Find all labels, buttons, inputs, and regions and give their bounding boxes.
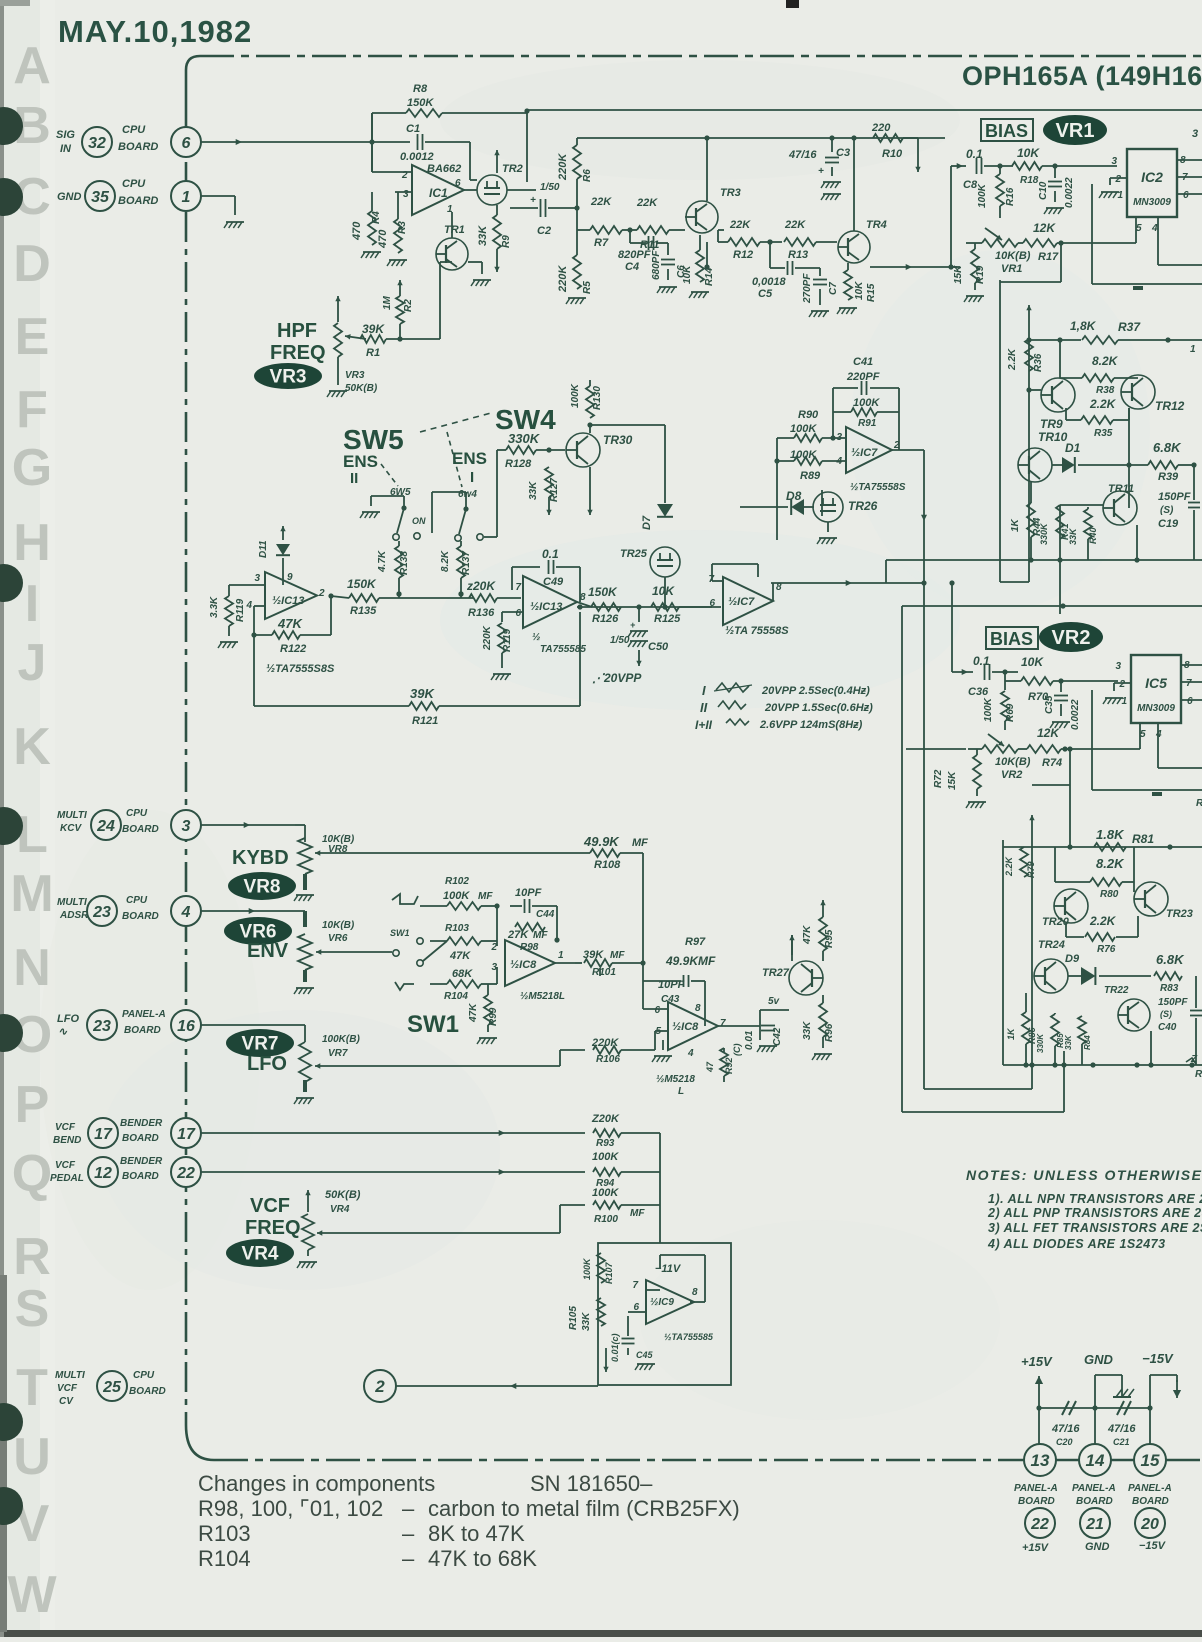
svg-text:BOARD: BOARD [122, 911, 159, 922]
svg-text:100K: 100K [443, 890, 470, 902]
svg-text:I: I [470, 469, 474, 486]
svg-text:3: 3 [1111, 156, 1117, 167]
svg-text:7: 7 [720, 1018, 726, 1029]
svg-text:23: 23 [92, 904, 111, 921]
svg-text:ENS: ENS [343, 452, 378, 471]
svg-text:G: G [12, 439, 52, 497]
svg-text:330K: 330K [508, 431, 541, 446]
svg-text:R69: R69 [1005, 703, 1016, 722]
svg-text:2: 2 [1114, 174, 1121, 185]
svg-text:MF: MF [632, 837, 648, 849]
svg-text:R108: R108 [594, 859, 621, 871]
svg-text:24: 24 [96, 818, 115, 835]
svg-text:15: 15 [1141, 1451, 1160, 1470]
svg-text:50K(B): 50K(B) [325, 1189, 361, 1201]
svg-text:+: + [530, 195, 536, 206]
svg-text:MF: MF [533, 930, 548, 941]
svg-text:BENDER: BENDER [120, 1118, 163, 1129]
svg-text:TR4: TR4 [866, 219, 887, 231]
svg-text:VCF: VCF [55, 1122, 76, 1133]
svg-text:SW1: SW1 [407, 1011, 459, 1038]
svg-text:0.0022: 0.0022 [1070, 699, 1081, 730]
svg-text:carbon to metal film (CRB25FX): carbon to metal film (CRB25FX) [428, 1496, 740, 1521]
svg-text:R36: R36 [1033, 353, 1044, 372]
svg-text:100K: 100K [592, 1151, 619, 1163]
svg-text:0.01: 0.01 [744, 1030, 755, 1050]
svg-text:R72: R72 [933, 769, 944, 788]
svg-text:R128: R128 [505, 458, 532, 470]
svg-text:(S): (S) [1160, 505, 1174, 516]
svg-text:10K(B): 10K(B) [995, 250, 1031, 262]
svg-text:½TA755585: ½TA755585 [664, 1332, 714, 1342]
svg-text:TR30: TR30 [603, 433, 633, 447]
svg-text:D11: D11 [258, 540, 269, 558]
svg-text:1/50: 1/50 [610, 635, 630, 646]
svg-text:KCV: KCV [60, 823, 82, 834]
svg-text:220K: 220K [557, 265, 569, 293]
svg-text:8K to 47K: 8K to 47K [428, 1521, 525, 1546]
svg-text:IC1: IC1 [429, 186, 448, 200]
svg-text:ON: ON [412, 516, 426, 526]
svg-text:TR27: TR27 [762, 967, 790, 979]
svg-text:8.2K: 8.2K [1092, 354, 1119, 368]
svg-text:BOARD: BOARD [124, 1025, 161, 1036]
svg-text:47K: 47K [802, 925, 813, 945]
svg-text:47/16: 47/16 [788, 149, 817, 161]
svg-text:4: 4 [835, 456, 842, 467]
svg-text:4) ALL DIODES ARE 1S2473: 4) ALL DIODES ARE 1S2473 [987, 1237, 1166, 1251]
svg-text:VCF: VCF [57, 1383, 78, 1394]
svg-text:CPU: CPU [122, 178, 146, 190]
svg-text:(S): (S) [1160, 1009, 1172, 1019]
svg-text:6: 6 [1183, 190, 1189, 201]
svg-text:23: 23 [92, 1018, 111, 1035]
svg-text:–: – [402, 1496, 415, 1521]
svg-text:OPH165A (149H165: OPH165A (149H165 [962, 61, 1202, 91]
svg-text:R2: R2 [403, 299, 414, 312]
svg-text:C5: C5 [758, 288, 773, 300]
svg-text:0.01(с): 0.01(с) [610, 1333, 620, 1362]
svg-text:33K: 33K [1068, 527, 1078, 545]
svg-text:68K: 68K [452, 968, 473, 980]
svg-text:47K: 47K [277, 616, 303, 631]
svg-text:CV: CV [59, 1396, 74, 1407]
svg-text:VR6: VR6 [328, 933, 348, 944]
svg-text:47/16: 47/16 [1107, 1423, 1136, 1435]
svg-text:VR1: VR1 [1056, 120, 1095, 142]
svg-text:MN3009: MN3009 [1137, 703, 1175, 714]
svg-text:220K: 220K [482, 625, 493, 651]
svg-text:BIAS: BIAS [985, 121, 1028, 141]
svg-text:BOARD: BOARD [1076, 1496, 1113, 1507]
svg-text:39K: 39K [362, 322, 385, 336]
svg-text:TR2: TR2 [502, 163, 523, 175]
svg-text:150K: 150K [347, 577, 377, 591]
svg-text:22K: 22K [784, 219, 806, 231]
svg-text:0.0022: 0.0022 [1064, 177, 1075, 208]
svg-text:2.2K: 2.2K [1004, 855, 1014, 877]
svg-text:3: 3 [403, 189, 409, 200]
svg-text:4: 4 [181, 904, 191, 921]
svg-text:1,8K: 1,8K [1070, 319, 1097, 333]
svg-text:1: 1 [558, 950, 564, 961]
svg-text:TR24: TR24 [1038, 939, 1065, 951]
svg-text:⋰20VPP: ⋰20VPP [592, 671, 642, 685]
svg-text:680PF: 680PF [651, 250, 662, 280]
svg-text:C19: C19 [1158, 518, 1179, 530]
svg-text:½IC7: ½IC7 [851, 447, 878, 459]
svg-text:I+II: I+II [695, 718, 713, 732]
svg-text:6.8K: 6.8K [1156, 952, 1185, 967]
svg-text:MULTI: MULTI [57, 810, 87, 821]
svg-text:PANEL-A: PANEL-A [1128, 1483, 1172, 1494]
svg-text:−15V: −15V [1139, 1540, 1167, 1552]
svg-text:R137: R137 [461, 551, 472, 575]
svg-text:T: T [16, 1359, 48, 1417]
svg-text:220K: 220K [557, 153, 569, 181]
svg-text:VR1: VR1 [1001, 263, 1022, 275]
svg-text:R1: R1 [366, 347, 380, 359]
svg-text:100K: 100K [983, 697, 994, 722]
svg-text:R14: R14 [704, 267, 715, 286]
svg-text:R90: R90 [798, 409, 819, 421]
svg-text:W: W [7, 1566, 57, 1624]
svg-text:270PF: 270PF [802, 273, 813, 304]
svg-text:M: M [10, 865, 53, 923]
svg-text:R121: R121 [412, 715, 438, 727]
svg-text:1: 1 [182, 189, 191, 206]
svg-text:½TA 75558S: ½TA 75558S [725, 625, 789, 637]
svg-text:P: P [15, 1076, 50, 1134]
svg-text:ADSR: ADSR [59, 910, 89, 921]
svg-text:R125: R125 [654, 613, 681, 625]
svg-text:R38: R38 [1096, 385, 1115, 396]
svg-text:39K: 39K [410, 686, 435, 701]
svg-text:C20: C20 [1056, 1437, 1073, 1447]
svg-text:3: 3 [1115, 661, 1121, 672]
svg-text:R9: R9 [501, 235, 512, 248]
svg-text:2: 2 [1118, 679, 1125, 690]
svg-text:35: 35 [91, 189, 110, 206]
svg-text:R91: R91 [858, 418, 877, 429]
svg-text:BOARD: BOARD [1018, 1496, 1055, 1507]
svg-text:12K: 12K [1037, 726, 1060, 740]
svg-text:330K: 330K [1039, 522, 1049, 545]
svg-text:½IC8: ½IC8 [672, 1021, 699, 1033]
svg-text:1K: 1K [1006, 1027, 1016, 1040]
svg-text:R89: R89 [800, 470, 821, 482]
svg-text:2: 2 [374, 1377, 385, 1396]
svg-text:R103: R103 [198, 1521, 251, 1546]
svg-text:+15V: +15V [1021, 1354, 1053, 1369]
svg-text:20VPP 1.5Sec(0.6Hƶ): 20VPP 1.5Sec(0.6Hƶ) [764, 702, 873, 714]
svg-text:C45: C45 [636, 1350, 654, 1360]
svg-text:7: 7 [632, 1280, 638, 1291]
svg-text:BOARD: BOARD [118, 141, 158, 153]
svg-text:R97: R97 [685, 936, 706, 948]
svg-text:32: 32 [88, 135, 106, 152]
svg-text:D7: D7 [641, 515, 653, 530]
svg-text:9: 9 [287, 572, 293, 583]
svg-text:C10: C10 [1038, 181, 1049, 200]
svg-text:100K: 100K [582, 1257, 592, 1280]
svg-text:8: 8 [692, 1287, 698, 1298]
svg-text:C41: C41 [853, 356, 873, 368]
svg-text:10K: 10K [1017, 146, 1040, 160]
svg-text:VR2: VR2 [1052, 627, 1091, 649]
svg-text:R136: R136 [468, 607, 495, 619]
svg-text:L: L [16, 806, 48, 864]
svg-text:20VPP 2.5Sec(0.4Hƶ): 20VPP 2.5Sec(0.4Hƶ) [761, 685, 870, 697]
svg-text:D: D [13, 235, 51, 293]
svg-text:VR8: VR8 [244, 877, 281, 898]
svg-text:100K: 100K [977, 183, 988, 208]
svg-text:SIG: SIG [56, 129, 75, 141]
svg-text:13: 13 [1031, 1451, 1050, 1470]
svg-text:–: – [402, 1521, 415, 1546]
svg-text:R119: R119 [502, 628, 513, 652]
svg-text:R103: R103 [445, 923, 469, 934]
svg-text:100K: 100K [790, 423, 817, 435]
svg-text:TR1: TR1 [444, 224, 465, 236]
svg-text:3: 3 [836, 432, 842, 443]
svg-text:R80: R80 [1100, 889, 1119, 900]
svg-text:C8: C8 [963, 179, 978, 191]
svg-text:0,0018: 0,0018 [752, 276, 787, 288]
svg-text:6: 6 [455, 178, 461, 189]
svg-text:U: U [13, 1428, 51, 1486]
svg-text:2.2K: 2.2K [1089, 914, 1117, 928]
svg-text:0.1: 0.1 [542, 547, 559, 561]
svg-text:R84: R84 [1083, 1035, 1092, 1050]
svg-text:R6: R6 [582, 169, 593, 182]
svg-text:220PF: 220PF [846, 371, 880, 383]
svg-text:VR2: VR2 [1001, 769, 1022, 781]
svg-text:6: 6 [515, 608, 521, 619]
svg-text:K: K [13, 718, 51, 776]
svg-text:C36: C36 [968, 686, 989, 698]
svg-text:0.1: 0.1 [966, 147, 983, 161]
svg-text:C49: C49 [543, 576, 564, 588]
svg-text:3) ALL FET TRANSISTORS ARE 2S: 3) ALL FET TRANSISTORS ARE 2S [988, 1221, 1202, 1235]
svg-text:Z20K: Z20K [591, 1113, 620, 1125]
svg-text:2: 2 [318, 588, 325, 599]
svg-text:6.8K: 6.8K [1153, 440, 1182, 455]
svg-text:R93: R93 [596, 1138, 615, 1149]
svg-text:R81: R81 [1132, 832, 1154, 846]
svg-text:33K: 33K [802, 1021, 813, 1040]
svg-text:R100: R100 [594, 1214, 618, 1225]
svg-text:R76: R76 [1097, 944, 1116, 955]
svg-text:27K: 27K [507, 929, 529, 941]
svg-text:R19: R19 [975, 265, 986, 284]
svg-text:BENDER: BENDER [120, 1156, 163, 1167]
svg-text:C21: C21 [1113, 1437, 1130, 1447]
svg-text:820PF: 820PF [618, 249, 651, 261]
svg-text:R: R [1195, 1069, 1202, 1080]
svg-text:SW1: SW1 [390, 928, 410, 938]
svg-text:10K(B): 10K(B) [995, 756, 1031, 768]
svg-text:150K: 150K [407, 97, 434, 109]
svg-text:8.2K: 8.2K [440, 550, 451, 572]
svg-text:7: 7 [515, 582, 521, 593]
svg-text:TR3: TR3 [720, 187, 741, 199]
svg-text:E: E [15, 308, 50, 366]
svg-text:10K: 10K [682, 265, 693, 284]
svg-text:BOARD: BOARD [1132, 1496, 1169, 1507]
svg-text:VR7: VR7 [328, 1048, 348, 1059]
svg-text:BIAS: BIAS [990, 629, 1033, 649]
svg-text:R106: R106 [596, 1054, 620, 1065]
svg-text:MN3009: MN3009 [1133, 197, 1171, 208]
svg-text:MULTI: MULTI [55, 1370, 85, 1381]
svg-text:VCF: VCF [55, 1160, 76, 1171]
svg-text:8: 8 [580, 592, 586, 603]
svg-text:VR8: VR8 [328, 844, 348, 855]
svg-text:TR26: TR26 [848, 499, 878, 513]
svg-text:I: I [25, 575, 39, 633]
svg-text:R135: R135 [350, 605, 377, 617]
svg-text:L: L [678, 1086, 684, 1097]
svg-text:R102: R102 [445, 876, 469, 887]
svg-text:100K: 100K [592, 1187, 619, 1199]
svg-text:TR12: TR12 [1155, 399, 1185, 413]
svg-text:47/16: 47/16 [1051, 1423, 1080, 1435]
svg-text:ENV: ENV [247, 940, 289, 962]
svg-text:I: I [702, 683, 706, 698]
svg-text:3: 3 [182, 818, 191, 835]
svg-text:CPU: CPU [126, 808, 148, 819]
svg-text:12K: 12K [1033, 221, 1056, 235]
svg-text:R35: R35 [1094, 428, 1113, 439]
svg-text:∿: ∿ [58, 1026, 68, 1038]
svg-text:VR7: VR7 [242, 1034, 279, 1055]
svg-text:22K: 22K [590, 196, 612, 208]
svg-text:D1: D1 [1065, 441, 1081, 455]
svg-text:N: N [13, 939, 51, 997]
svg-text:IC5: IC5 [1145, 675, 1167, 691]
svg-text:R74: R74 [1042, 757, 1062, 769]
svg-text:R10: R10 [882, 148, 903, 160]
svg-text:14: 14 [1086, 1451, 1105, 1470]
svg-text:S: S [15, 1280, 50, 1338]
svg-text:33K: 33K [528, 481, 539, 500]
svg-text:25: 25 [102, 1379, 122, 1396]
svg-text:6: 6 [654, 1005, 660, 1016]
svg-text:220: 220 [871, 122, 891, 134]
svg-text:½TA75558S: ½TA75558S [850, 482, 906, 493]
svg-text:R3: R3 [397, 221, 408, 234]
svg-text:z20K: z20K [466, 579, 496, 593]
svg-text:Z: Z [1190, 1054, 1198, 1065]
svg-text:½M5218L: ½M5218L [520, 991, 565, 1002]
svg-text:100K(B): 100K(B) [322, 1034, 360, 1045]
svg-text:LFO: LFO [57, 1013, 79, 1025]
svg-text:TR25: TR25 [620, 548, 648, 560]
svg-text:R122: R122 [280, 643, 306, 655]
svg-text:VR4: VR4 [242, 1244, 279, 1265]
svg-text:½TA7555S8S: ½TA7555S8S [266, 663, 335, 675]
svg-text:17: 17 [177, 1126, 196, 1143]
svg-text:8: 8 [695, 1003, 701, 1014]
svg-text:II: II [350, 470, 358, 487]
svg-text:TR10: TR10 [1038, 430, 1068, 444]
svg-text:10K: 10K [652, 584, 675, 598]
svg-text:2.2K: 2.2K [1089, 397, 1117, 411]
svg-text:(C): (C) [732, 1044, 742, 1057]
svg-text:SW5: SW5 [343, 424, 404, 455]
svg-text:R127: R127 [549, 478, 560, 502]
svg-text:22: 22 [1030, 1516, 1049, 1533]
svg-text:4: 4 [687, 1048, 694, 1059]
svg-text:R101: R101 [592, 967, 616, 978]
svg-text:FREQ: FREQ [245, 1217, 301, 1239]
svg-text:10K(B): 10K(B) [322, 920, 355, 931]
svg-text:IC2: IC2 [1141, 169, 1163, 185]
svg-text:150K: 150K [588, 585, 618, 599]
svg-text:PANEL-A: PANEL-A [1072, 1483, 1116, 1494]
svg-text:VR4: VR4 [330, 1204, 350, 1215]
svg-text:100K: 100K [570, 383, 581, 408]
svg-text:CPU: CPU [122, 124, 146, 136]
svg-text:C4: C4 [625, 261, 639, 273]
svg-text:MF: MF [478, 891, 493, 902]
svg-text:1M: 1M [382, 295, 393, 310]
svg-text:CPU: CPU [126, 895, 148, 906]
svg-text:C42: C42 [772, 1027, 783, 1046]
svg-text:3.3K: 3.3K [209, 596, 220, 618]
svg-text:C1: C1 [406, 123, 420, 135]
svg-text:6: 6 [1187, 696, 1193, 707]
svg-text:C44: C44 [536, 909, 555, 920]
svg-text:10PF: 10PF [515, 887, 542, 899]
svg-text:II: II [700, 700, 708, 715]
svg-text:+15V: +15V [1022, 1542, 1050, 1554]
svg-text:J: J [18, 634, 47, 692]
svg-text:R104: R104 [198, 1546, 251, 1571]
svg-text:A: A [13, 37, 51, 95]
svg-text:6: 6 [709, 598, 715, 609]
svg-text:R4: R4 [371, 211, 382, 224]
svg-text:4: 4 [1151, 223, 1158, 234]
svg-text:50K(B): 50K(B) [345, 383, 378, 394]
svg-text:R12: R12 [733, 249, 753, 261]
svg-text:R17: R17 [1038, 251, 1059, 263]
svg-text:VR3: VR3 [345, 370, 365, 381]
svg-text:R99: R99 [488, 1007, 499, 1026]
svg-text:150PF: 150PF [1158, 997, 1188, 1008]
svg-text:R104: R104 [444, 991, 468, 1002]
svg-text:22: 22 [176, 1165, 195, 1182]
svg-text:VR3: VR3 [270, 367, 307, 388]
svg-text:150PF: 150PF [1158, 491, 1191, 503]
svg-text:10K: 10K [854, 281, 865, 300]
svg-text:MF: MF [610, 950, 625, 961]
svg-text:2.2K: 2.2K [1007, 348, 1018, 371]
svg-text:+: + [630, 620, 636, 630]
svg-text:BOARD: BOARD [129, 1386, 166, 1397]
svg-text:BOARD: BOARD [122, 824, 159, 835]
svg-text:R96: R96 [824, 1023, 835, 1042]
svg-text:½IC13: ½IC13 [530, 601, 562, 613]
svg-text:R: R [1196, 798, 1202, 809]
svg-text:33K: 33K [581, 1312, 592, 1331]
svg-text:PANEL-A: PANEL-A [122, 1009, 166, 1020]
svg-text:8.2K: 8.2K [1096, 856, 1125, 871]
svg-text:R16: R16 [1005, 187, 1016, 206]
svg-text:R107: R107 [604, 1261, 614, 1284]
svg-text:R98, 100, ⌜01, 102: R98, 100, ⌜01, 102 [198, 1496, 383, 1521]
